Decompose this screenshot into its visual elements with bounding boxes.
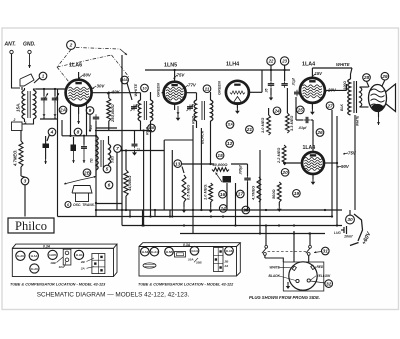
ground below capacitor 22 [270,88,272,95]
svg-text:2: 2 [69,43,73,49]
dash arrow to tuning capacitor [76,48,120,50]
box1 tube socket 1LH4 [74,250,83,259]
wire 22/23 drops [270,65,272,81]
wire gang top bus [36,88,66,90]
capacitor .01 left of 1LA4 [296,90,298,92]
svg-text:3: 3 [24,179,27,185]
svg-text:WHITE: WHITE [133,84,138,97]
ground lead arrow [29,54,31,68]
node 20 compensator [281,169,289,177]
antenna transformer secondary coil [34,90,37,119]
ground below 0.5meg [183,202,185,207]
svg-text:1.0 MEG.: 1.0 MEG. [203,184,208,200]
node 31 compensator [322,247,330,255]
svg-text:1LA6: 1LA6 [31,267,38,271]
plug square outline [283,262,324,291]
resistor 0.5 MEG [182,175,186,202]
bus wire y233 [180,233,325,235]
capacitor .01 below 23 [284,81,286,84]
node 6 compensator [105,181,113,189]
wire white line from 1LA4 [311,68,313,78]
svg-text:10A: 10A [188,258,194,262]
svg-text:YELLOW: YELLOW [317,274,332,278]
node 25 compensator [297,106,305,114]
node 26 compensator [316,129,324,137]
switch link dashed [268,250,306,252]
wire 1LN5 plate to IF2 [186,92,197,94]
ground below 1LA4 second [312,174,314,179]
svg-text:10B: 10B [50,261,56,265]
capacitor .01uf coupling [304,119,307,121]
antenna coupling blob [20,74,34,86]
svg-text:19: 19 [294,191,300,197]
svg-text:12: 12 [227,141,233,147]
svg-text:20: 20 [281,170,288,176]
wire transformer bottom leads [24,119,26,122]
svg-text:TUBE & COMPENSATOR LOCATION -: TUBE & COMPENSATOR LOCATION - MODEL 42-1… [10,283,106,287]
svg-text:PLUG SHOWN FROM PRONG SIDE.: PLUG SHOWN FROM PRONG SIDE. [249,295,320,300]
node 32 compensator [325,280,333,288]
ground below 1LH4 [236,104,238,108]
svg-text:15: 15 [217,153,223,159]
svg-text:Philco: Philco [15,219,47,233]
svg-text:.01µf: .01µf [292,77,296,86]
bus junction dots [149,215,151,217]
svg-text:9: 9 [89,108,92,114]
wire left vertical bus [57,89,59,217]
box1 tube socket 1LA6 lower [30,264,39,273]
tube 1LA4 second output [302,152,324,174]
Philco logo box [8,218,54,233]
svg-text:1LN5: 1LN5 [49,253,56,257]
node 14 compensator [219,205,227,213]
box2 tube socket 1LH4 [190,247,199,256]
svg-text:TUBE & COMPENSATOR LOCATION -: TUBE & COMPENSATOR LOCATION - MODEL 42-1… [138,283,234,287]
IF transformer 1 primary coil [138,100,140,121]
electrolytic capacitor 10mf [349,210,351,215]
svg-text:WHITE: WHITE [270,266,281,270]
variable capacitor section B [54,95,56,98]
chassis box model 42-123 [12,244,117,248]
box1 tube socket 1LN5 [48,250,57,259]
ground below 1LN5 [174,104,176,110]
svg-text:1LH4: 1LH4 [191,249,198,253]
wire 1LA6 plate to IF1 [92,92,141,94]
ground below 1LA6 [78,106,80,114]
node 2 compensator [67,41,76,50]
svg-text:1.0 MEG: 1.0 MEG [260,118,265,133]
node 10B compensator [148,124,156,132]
svg-text:1LA6: 1LA6 [226,249,233,253]
svg-text:21: 21 [246,127,253,133]
svg-text:80K: 80K [112,90,121,95]
svg-text:25: 25 [297,108,304,114]
speaker ground arrow [378,111,380,117]
oscillator coil primary [96,136,98,170]
box2 tube socket 1LA6 right [225,247,234,256]
svg-text:2: 2 [13,118,16,122]
node 1 compensator [39,72,47,80]
svg-text:RED: RED [317,265,324,269]
svg-text:7Ω: 7Ω [90,158,94,163]
wire secondary to speaker [360,86,369,88]
svg-text:2B: 2B [83,170,91,176]
wire antenna lead [12,54,21,88]
wire vertical interconnects [121,55,123,226]
resistor 44,000 ohm [124,170,128,196]
oscillator coil core [100,140,102,167]
svg-text:1LN5: 1LN5 [166,250,173,254]
node 11 compensator [203,85,211,93]
bakelite block capacitor [223,176,232,183]
svg-text:7: 7 [116,146,119,152]
node 6 oscillator transformer label [65,202,71,208]
svg-text:RED: RED [191,116,196,124]
svg-text:22: 22 [268,59,274,64]
wire osc section links [95,131,97,136]
svg-text:GREEN: GREEN [216,81,221,95]
svg-text:24: 24 [273,109,280,115]
svg-text:5.8Ω: 5.8Ω [111,156,115,163]
resistor 4.7 MEG [19,141,23,167]
wire volume cap drops [226,183,228,210]
svg-text:1LA6: 1LA6 [69,63,82,69]
node 16 compensator [219,190,227,198]
plug pin white [292,266,296,270]
svg-text:2A: 2A [80,267,85,271]
wire transformer top to grid [34,89,58,90]
bus wire y225 [122,225,342,227]
node 2B compensator [83,169,91,177]
IF transformer 1 secondary coil [151,100,153,121]
wire y150 link [122,150,165,152]
svg-text:1: 1 [42,74,45,80]
svg-text:2B: 2B [80,260,86,264]
tuning rotor line with arrows [64,180,80,184]
svg-text:1LA6: 1LA6 [17,254,24,258]
plug pin yellow [307,279,310,282]
svg-text:2.2 MEG: 2.2 MEG [276,148,281,164]
box1 tube socket 1LA4 [29,251,38,260]
wire output grid coupling [311,119,313,121]
svg-text:1LH4: 1LH4 [76,253,83,257]
svg-text:27: 27 [326,103,333,109]
node 27 compensator [326,102,334,110]
svg-text:1LA6: 1LA6 [141,250,148,254]
capacitor at oscillator plate [134,142,136,145]
IF transformer 1 core [143,101,145,120]
svg-text:SCHEMATIC DIAGRAM — MODELS 42-: SCHEMATIC DIAGRAM — MODELS 42-122, 42-12… [37,292,190,299]
node 10 compensator [141,84,149,92]
svg-text:30V: 30V [97,84,106,89]
tube 1LH4 detector [226,81,249,104]
box2 tube socket 1LN5 [165,247,174,256]
svg-text:77V: 77V [188,83,197,88]
node 24 compensator [273,107,281,115]
node 21 compensator [246,126,254,134]
tuning gang dash-dot outline [57,50,71,68]
node 5 compensator [103,165,111,173]
box2 dial oval [143,263,156,268]
svg-text:90V: 90V [341,164,350,169]
wire tube2 plate to transformer [324,162,337,164]
ground below capacitor 4 [45,148,47,159]
speaker magnet [372,104,384,111]
svg-text:10mf: 10mf [344,235,353,239]
resistor 1.0 MEG audio grid [209,183,213,202]
wire IF1 bottoms [140,121,142,131]
box2 IF unit rectangle [175,252,186,258]
node 12 compensator [226,140,234,148]
svg-text:10B: 10B [196,261,202,265]
svg-text:WHITE: WHITE [336,62,350,67]
svg-text:28: 28 [363,75,370,81]
svg-text:BLACK: BLACK [200,129,205,144]
node 13 compensator [174,160,182,168]
svg-text:WHITE: WHITE [356,115,360,126]
plug pin black [296,279,299,282]
resistor 1.0 MEG detector load [267,115,271,135]
node 11A compensator [226,121,234,129]
svg-text:13: 13 [175,161,181,167]
ground below 1.0meg [210,202,212,207]
wire resistor to node 3 [20,167,22,176]
resistor 560 ohm [277,182,281,202]
box2 compensator grid [214,248,224,272]
svg-text:1LA4: 1LA4 [30,254,37,258]
ground arrows below trimmers [73,151,75,163]
svg-text:11: 11 [205,86,210,92]
ground in plug box [287,282,289,284]
wire IF2 bottoms [196,121,198,128]
variable capacitor section A [43,95,45,98]
antenna transformer 15A primary coil [22,90,25,119]
svg-text:11A: 11A [227,123,233,127]
svg-text:1LN5: 1LN5 [164,63,177,69]
svg-text:23: 23 [281,59,287,64]
node 29 compensator [381,72,389,80]
node 17 compensator [237,190,245,198]
node 28 compensator [363,74,371,82]
antenna transformer core [27,91,29,118]
capacitor below node 4 [43,144,50,149]
svg-text:4: 4 [24,121,27,125]
svg-text:2A: 2A [224,264,229,268]
ground below 560 [278,202,280,206]
node 2A compensator [59,106,67,114]
resistor 4.7 MEG agc [257,177,261,202]
svg-text:2B: 2B [224,259,230,263]
svg-text:0.5 MEG: 0.5 MEG [186,185,191,200]
resistor 2.2 MEG [282,145,286,165]
IF transformer 2 core [201,101,203,120]
box2 tube socket 1LA6 [141,247,150,256]
svg-text:4: 4 [50,130,54,136]
output transformer primary coil [348,79,351,115]
box2 tube socket 1LA4 [150,247,159,256]
wire 75V top bus [145,69,290,71]
ground below 1LA4 top [311,103,313,109]
node 18 compensator [242,206,250,214]
svg-text:.01µf: .01µf [298,126,307,130]
node 8 compensator [74,128,82,136]
node 10A compensator [121,76,129,84]
oscillator transformer box [76,193,89,202]
svg-text:1LA4: 1LA4 [151,250,158,254]
svg-text:4.7MEG.: 4.7MEG. [13,149,18,167]
plug pin red [311,265,315,269]
node 4 compensator [48,128,56,136]
capacitor .05 below resistor [95,114,97,117]
svg-text:15V: 15V [315,71,324,76]
svg-text:32: 32 [326,281,332,287]
svg-text:GREEN: GREEN [156,83,161,97]
svg-text:1LA4: 1LA4 [302,62,315,68]
svg-text:0.3A: 0.3A [183,243,191,247]
svg-text:.05: .05 [265,88,269,93]
svg-text:31: 31 [323,249,329,255]
svg-text:6: 6 [108,183,111,189]
wire output stage drops [331,110,333,217]
svg-text:0.3A: 0.3A [43,244,51,248]
svg-text:26: 26 [316,130,323,136]
node 30 compensator [346,215,355,224]
svg-text:ANT.: ANT. [4,42,16,48]
svg-text:1LH4: 1LH4 [226,62,239,68]
wire IF1 secondary down [150,131,152,217]
svg-text:250,000Ω: 250,000Ω [110,104,115,123]
svg-text:15A.: 15A. [16,103,21,112]
bus wire y216 [58,216,333,218]
IF transformer 2 primary coil [194,100,196,121]
node 7 compensator [114,145,122,153]
node 9 compensator [86,107,94,115]
svg-text:30: 30 [347,217,353,223]
svg-text:BLK: BLK [340,103,344,111]
tube 1LA4 output [300,78,325,103]
plug circle [289,262,317,290]
node 19 compensator [293,190,301,198]
node 22 compensator [267,57,275,65]
capacitor .006 [247,175,249,178]
svg-text:8: 8 [77,130,80,136]
svg-text:14: 14 [221,206,227,212]
wire node13 to volume [182,163,215,165]
svg-text:2A: 2A [59,108,67,114]
tube 1LA6 converter [66,80,92,106]
resistor 250000 ohm [107,98,111,121]
oscillator dial trapezoid [72,186,92,194]
svg-text:80V: 80V [83,73,92,78]
power switch pole 1 [265,245,268,248]
box1 compensator grid [92,254,105,274]
output transformer secondary coil [360,87,362,107]
svg-text:29: 29 [381,74,388,80]
svg-text:16: 16 [220,192,226,198]
bus wire y210 [96,209,342,211]
svg-text:40,000Ω: 40,000Ω [212,162,228,167]
wire gang cap bottom bus [40,118,58,120]
speaker cone [386,84,396,112]
oscillator coil secondary [109,144,111,164]
speaker voice coil [369,85,387,112]
wire switch to plug [264,255,266,258]
svg-text:GND.: GND. [23,42,36,48]
svg-text:5: 5 [106,167,109,173]
svg-text:75V: 75V [177,73,186,78]
power switch pole 2 [309,245,312,248]
chassis box model 42-122 [139,243,240,247]
capacitor .05 below 22 [270,81,272,84]
svg-text:OSC. TRANS.: OSC. TRANS. [73,203,95,207]
svg-text:560Ω: 560Ω [271,189,276,199]
IF1 trimmer capacitor [133,105,135,107]
wire 1LA6 pin drops [70,104,72,136]
volume wiper arrow [216,173,223,183]
box1 IF unit rectangle [63,249,71,265]
IF2 trimmer capacitor [189,105,191,107]
box1 tube socket 1LA6 [16,251,25,260]
svg-text:4.7MEG: 4.7MEG [251,186,256,201]
resistor 3.3 MEG [286,113,290,133]
terminal strip box [12,122,23,131]
svg-text:.006µf: .006µf [239,164,243,175]
wire detector junction to tube2 grid [284,162,302,164]
svg-text:LUG: LUG [334,231,341,235]
wire detector couplings [231,163,248,165]
battery bracket 60V [354,214,363,241]
IF transformer 2 secondary coil [211,100,213,121]
svg-text:10A: 10A [59,265,65,269]
svg-text:17: 17 [238,192,244,198]
wire output plate lead [325,89,347,91]
svg-text:44,000Ω: 44,000Ω [127,175,132,192]
svg-text:3.3 MEG: 3.3 MEG [289,116,294,131]
node 23 compensator [280,57,288,65]
wire long vertical x143 [143,131,145,226]
node 15 compensator [216,152,224,160]
oscillator trimmer capacitors [71,145,77,152]
output transformer core [353,81,355,113]
node 3 compensator [21,177,29,185]
tube 1LN5 IF amplifier [164,82,186,104]
svg-text:10B: 10B [149,126,156,130]
